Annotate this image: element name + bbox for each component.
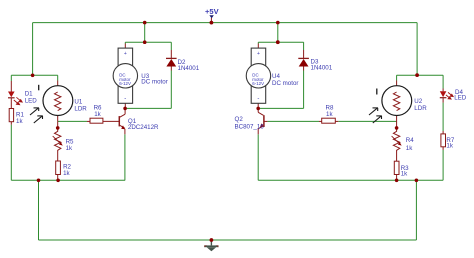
svg-text:LDR: LDR (74, 105, 87, 112)
svg-text:DC motor: DC motor (141, 79, 167, 86)
svg-text:BC807_16: BC807_16 (235, 124, 265, 131)
svg-text:1k: 1k (66, 145, 73, 152)
svg-text:1k: 1k (401, 171, 408, 178)
svg-text:LED: LED (454, 95, 467, 102)
svg-text:+: + (124, 51, 127, 57)
svg-text:Q2: Q2 (235, 116, 244, 123)
svg-text:LDR: LDR (414, 105, 427, 112)
svg-text:1N4001: 1N4001 (178, 65, 200, 72)
svg-text:6-12V: 6-12V (119, 81, 131, 86)
svg-text:1k: 1k (94, 111, 101, 118)
svg-text:1k: 1k (406, 145, 413, 152)
svg-text:U1: U1 (74, 98, 82, 105)
svg-text:R4: R4 (406, 137, 414, 144)
svg-text:2DC2412R: 2DC2412R (128, 124, 159, 131)
svg-text:+5V: +5V (205, 7, 219, 16)
svg-text:1k: 1k (446, 142, 453, 149)
svg-text:DC motor: DC motor (272, 80, 298, 87)
svg-text:-: - (124, 96, 126, 102)
svg-text:1k: 1k (63, 170, 70, 177)
svg-text:1k: 1k (326, 111, 333, 118)
svg-text:-: - (257, 96, 259, 102)
svg-text:1N4001: 1N4001 (311, 65, 333, 72)
svg-text:+: + (257, 51, 260, 57)
svg-text:6-12V: 6-12V (252, 81, 264, 86)
svg-text:U2: U2 (414, 98, 422, 105)
svg-text:1k: 1k (16, 118, 23, 125)
svg-text:D1: D1 (25, 91, 33, 98)
svg-text:LED: LED (25, 98, 38, 105)
